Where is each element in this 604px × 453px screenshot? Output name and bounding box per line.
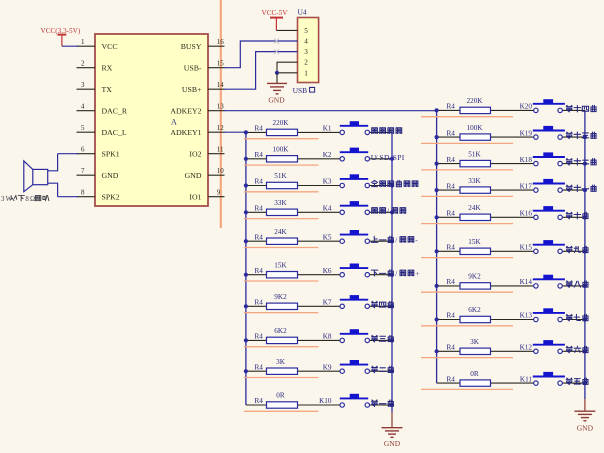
svg-text:R4: R4 xyxy=(447,344,456,352)
pushbutton K19 xyxy=(520,126,565,139)
USB pin 4 xyxy=(304,38,308,46)
pushbutton K7 xyxy=(323,295,370,308)
pushbutton K2 xyxy=(323,148,370,161)
label 3W以下8Ω喇叭 xyxy=(1,195,49,202)
pushbutton K16 xyxy=(520,206,565,219)
resistor R4 15K xyxy=(447,238,491,255)
resistor R4 0R xyxy=(255,392,298,408)
svg-text:6: 6 xyxy=(81,146,85,154)
resistor R4 33K xyxy=(255,199,298,216)
svg-text:R4: R4 xyxy=(255,333,264,341)
svg-text:15: 15 xyxy=(217,60,225,68)
pin 5 (DAC_L) xyxy=(77,124,127,137)
wire row K19 xyxy=(435,135,588,139)
pin 14 (USB+) xyxy=(182,81,225,94)
wire row K8 xyxy=(244,338,394,342)
svg-text:Ω: Ω xyxy=(30,196,35,203)
wire row K13 xyxy=(435,317,588,321)
svg-text:R4: R4 xyxy=(447,312,456,320)
svg-text:R4: R4 xyxy=(255,125,264,133)
svg-text:5: 5 xyxy=(304,27,308,35)
marker line under K7 row xyxy=(244,312,319,314)
svg-text:3: 3 xyxy=(1,196,5,203)
svg-text:15K: 15K xyxy=(274,261,287,269)
svg-text:14: 14 xyxy=(217,81,225,89)
label 第五曲 xyxy=(566,378,588,385)
svg-text:R4: R4 xyxy=(447,103,456,111)
wire row K6 xyxy=(244,273,394,277)
label 第十三曲 xyxy=(566,132,596,139)
resistor R4 51K xyxy=(255,172,298,189)
svg-text:0R: 0R xyxy=(276,392,285,400)
label 第九曲 xyxy=(566,246,588,253)
svg-text:GND: GND xyxy=(185,171,202,180)
marker line under K18 row xyxy=(421,169,513,171)
marker line under K4 row xyxy=(244,218,319,220)
pin 8 (SPK2) xyxy=(77,189,120,202)
label 上一曲/音量- xyxy=(371,235,418,244)
wire flag to USB pin5 xyxy=(276,29,297,31)
pushbutton K9 xyxy=(323,360,370,373)
wire speaker to pin 8 (SPK2) xyxy=(58,196,78,198)
svg-text:R4: R4 xyxy=(255,178,264,186)
label 第七曲 xyxy=(566,314,588,321)
resistor R4 33K xyxy=(447,177,491,193)
bus rail (switch common side) xyxy=(584,110,586,399)
svg-text:USB: USB xyxy=(293,86,308,95)
USB connector U4 xyxy=(298,18,319,83)
svg-text:SPK1: SPK1 xyxy=(102,149,120,158)
resistor R4 220K xyxy=(447,97,491,114)
svg-text:2: 2 xyxy=(81,60,85,68)
label 第六曲 xyxy=(566,346,588,353)
svg-text:K18: K18 xyxy=(520,156,533,164)
marker line under K19 row xyxy=(421,142,513,144)
wire USB pin2 to pin1 junction xyxy=(277,62,298,73)
svg-text:51K: 51K xyxy=(274,172,287,180)
svg-text:K2: K2 xyxy=(323,151,332,159)
wire row K16 xyxy=(435,215,588,219)
IC A (voice module) xyxy=(95,34,208,206)
svg-text:USB+: USB+ xyxy=(182,85,202,94)
resistor R4 24K xyxy=(255,228,298,245)
svg-text:3: 3 xyxy=(304,48,308,56)
wire flag to pin1 xyxy=(62,45,78,47)
svg-text:R4: R4 xyxy=(447,210,456,218)
ground symbol xyxy=(382,428,403,438)
svg-text:K7: K7 xyxy=(323,299,332,307)
svg-text:+: + xyxy=(415,269,419,278)
svg-text:33K: 33K xyxy=(274,199,287,207)
bus rail (resistor side) xyxy=(245,132,247,405)
svg-text:K20: K20 xyxy=(520,103,533,111)
label 第十四曲 xyxy=(566,105,596,112)
svg-text:RX: RX xyxy=(102,63,113,72)
svg-text:K11: K11 xyxy=(520,375,533,383)
svg-text:R4: R4 xyxy=(255,267,264,275)
resistor R4 6K2 xyxy=(447,306,491,322)
svg-text:K1: K1 xyxy=(323,125,332,133)
bus rail (resistor side) xyxy=(436,110,438,383)
label 播放/暂停 xyxy=(372,207,406,216)
USB pin 3 xyxy=(304,48,308,56)
pushbutton K14 xyxy=(520,275,565,288)
marker line under K3 row xyxy=(244,191,319,193)
wire speaker to pin 6 (SPK1) xyxy=(58,153,78,155)
marker line under K2 row xyxy=(244,164,319,166)
svg-text:VCC: VCC xyxy=(102,42,118,51)
svg-text:R4: R4 xyxy=(255,233,264,241)
svg-text:R4: R4 xyxy=(447,375,456,383)
marker line under K11 row xyxy=(421,388,513,390)
power flag VCC-5V xyxy=(262,9,289,30)
svg-text:R4: R4 xyxy=(447,182,456,190)
svg-text:S: S xyxy=(379,153,383,162)
pushbutton K18 xyxy=(520,152,565,165)
resistor R4 3K xyxy=(255,358,298,375)
pin 2 (RX) xyxy=(77,60,113,73)
svg-text:K5: K5 xyxy=(323,233,332,241)
vertical marker line xyxy=(220,0,222,228)
wire row K14 xyxy=(435,284,588,288)
svg-text:GND: GND xyxy=(384,439,401,448)
pushbutton K12 xyxy=(520,340,565,353)
wire USB+ (pin14 to USB pin3) xyxy=(224,52,298,90)
label 第四曲 xyxy=(372,301,394,308)
pushbutton K11 xyxy=(520,372,565,385)
wire row K2 xyxy=(244,157,394,161)
svg-text:TX: TX xyxy=(102,85,113,94)
pin 3 (TX) xyxy=(77,81,113,94)
pin 4 (DAC_R) xyxy=(77,103,128,116)
svg-text:1: 1 xyxy=(304,69,308,77)
pin 1 (VCC) xyxy=(77,38,118,51)
pin 16 (BUSY) xyxy=(181,38,225,51)
svg-text:24K: 24K xyxy=(468,204,481,212)
svg-text:K4: K4 xyxy=(323,205,332,213)
pin 12 (ADKEY1) xyxy=(170,124,224,137)
resistor R4 220K xyxy=(255,119,298,135)
pushbutton K20 xyxy=(520,99,565,112)
wire net ADKEY1 (pin12 to key ladder 1) xyxy=(224,131,246,133)
svg-text:4: 4 xyxy=(304,38,308,46)
svg-text:K19: K19 xyxy=(520,129,533,137)
marker line under K6 row xyxy=(244,280,319,282)
ground symbol (USB) xyxy=(267,83,287,94)
marker line under K14 row xyxy=(421,291,513,293)
svg-text:6K2: 6K2 xyxy=(274,327,287,335)
svg-text:BUSY: BUSY xyxy=(181,42,202,51)
pushbutton K1 xyxy=(323,121,370,134)
pushbutton K17 xyxy=(520,179,565,192)
svg-text:8: 8 xyxy=(25,196,29,203)
svg-text:SPK2: SPK2 xyxy=(102,192,120,201)
wire net ADKEY2 (pin13 to key ladder 2) xyxy=(224,110,437,112)
pin 11 (IO2) xyxy=(189,146,224,159)
svg-text:S: S xyxy=(393,153,397,162)
svg-text:VCC-5V: VCC-5V xyxy=(262,9,289,17)
svg-text:.: . xyxy=(389,153,391,162)
wire USB- (pin15 to USB pin4) xyxy=(224,41,298,68)
svg-text:11: 11 xyxy=(217,146,224,154)
svg-text:51K: 51K xyxy=(468,150,481,158)
svg-text:R4: R4 xyxy=(255,299,264,307)
svg-text:10: 10 xyxy=(217,167,225,175)
svg-text:3: 3 xyxy=(81,81,85,89)
label 第八曲 xyxy=(566,281,588,288)
pin 15 (USB-) xyxy=(184,60,225,73)
marker line under K17 row xyxy=(421,195,513,197)
marker line under K10 row xyxy=(244,410,319,412)
svg-text:7: 7 xyxy=(81,167,85,175)
svg-text:K12: K12 xyxy=(520,344,533,352)
ground stem (USB) xyxy=(276,73,278,83)
label 第三曲 xyxy=(372,335,394,342)
speaker LS (3W 8ohm) xyxy=(24,154,58,197)
marker line under K1 row xyxy=(244,138,319,140)
bus rail (switch common side) xyxy=(391,132,393,412)
wire row K5 xyxy=(244,239,394,243)
svg-text:DAC_R: DAC_R xyxy=(102,106,128,115)
resistor R4 100K xyxy=(255,146,298,163)
label 播放模式 xyxy=(372,128,402,134)
pushbutton K8 xyxy=(323,329,370,342)
svg-text:13: 13 xyxy=(217,103,225,111)
wire row K4 xyxy=(244,210,394,214)
label 第十曲 xyxy=(566,212,588,219)
pushbutton K15 xyxy=(520,240,565,253)
resistor R4 100K xyxy=(447,124,491,140)
svg-text:R4: R4 xyxy=(255,397,264,405)
resistor R4 3K xyxy=(447,338,491,355)
svg-text:GND: GND xyxy=(268,95,285,104)
svg-text:9: 9 xyxy=(217,189,221,197)
junction dot USB pin1 xyxy=(275,71,279,75)
svg-text:K13: K13 xyxy=(520,312,533,320)
wire row K9 xyxy=(244,369,394,373)
label 全部歌曲循环 xyxy=(372,180,418,186)
marker line under K13 row xyxy=(421,325,513,327)
svg-text:R4: R4 xyxy=(255,205,264,213)
svg-text:A: A xyxy=(171,118,177,127)
pin 9 (IO1) xyxy=(189,189,224,202)
svg-text:8: 8 xyxy=(81,189,85,197)
wire row K10 xyxy=(246,403,394,407)
svg-text:5: 5 xyxy=(81,124,85,132)
pin 13 (ADKEY2) xyxy=(170,103,224,116)
svg-text:R4: R4 xyxy=(447,156,456,164)
svg-text:K9: K9 xyxy=(323,363,332,371)
marker line under K9 row xyxy=(244,377,319,379)
svg-text:R4: R4 xyxy=(447,244,456,252)
pushbutton K4 xyxy=(323,201,370,214)
wire row K7 xyxy=(244,304,394,308)
marker line under K5 row xyxy=(244,247,319,249)
svg-text:0R: 0R xyxy=(470,370,479,378)
resistor R4 51K xyxy=(447,150,491,166)
svg-text:6K2: 6K2 xyxy=(468,306,481,314)
wire row K12 xyxy=(435,349,588,353)
label 第二曲 xyxy=(372,366,394,373)
svg-text:DAC_L: DAC_L xyxy=(102,128,127,137)
resistor R4 9K2 xyxy=(255,293,298,310)
wire row K17 xyxy=(435,188,588,192)
svg-text:K10: K10 xyxy=(319,397,332,405)
cross marker on USB- wire xyxy=(274,39,279,44)
marker line under K8 row xyxy=(244,346,319,348)
svg-text:IO1: IO1 xyxy=(189,192,201,201)
svg-text:2: 2 xyxy=(304,59,308,67)
marker line under K20 row xyxy=(421,116,513,118)
svg-text:R4: R4 xyxy=(255,151,264,159)
wire row K3 xyxy=(244,183,394,187)
label 第十二曲 xyxy=(566,159,596,166)
svg-text:3K: 3K xyxy=(276,358,286,366)
svg-text:9K2: 9K2 xyxy=(468,273,481,281)
label 第一曲 xyxy=(372,400,394,407)
svg-text:24K: 24K xyxy=(274,228,287,236)
USB pin 2 xyxy=(304,59,308,67)
pushbutton K6 xyxy=(323,264,370,277)
label 第十一曲 xyxy=(566,185,596,192)
svg-text:R4: R4 xyxy=(447,129,456,137)
pushbutton K5 xyxy=(323,230,370,243)
wire row K15 xyxy=(435,249,588,253)
svg-text:33K: 33K xyxy=(468,177,481,185)
cross marker on USB+ wire xyxy=(274,49,279,54)
svg-text:15K: 15K xyxy=(468,238,481,246)
pushbutton K10 xyxy=(319,394,369,407)
svg-text:K17: K17 xyxy=(520,182,533,190)
svg-text:3K: 3K xyxy=(470,338,480,346)
svg-text:R4: R4 xyxy=(447,278,456,286)
marker line under K12 row xyxy=(421,357,513,359)
svg-text:9K2: 9K2 xyxy=(274,293,287,301)
svg-text:GND: GND xyxy=(577,423,594,432)
svg-text:100K: 100K xyxy=(467,124,484,132)
svg-text:U4: U4 xyxy=(298,8,307,17)
svg-text:220K: 220K xyxy=(467,97,484,105)
resistor R4 9K2 xyxy=(447,273,491,290)
svg-text:16: 16 xyxy=(217,38,225,46)
USB pin 1 xyxy=(304,69,308,77)
svg-text:GND: GND xyxy=(102,171,119,180)
svg-text:K14: K14 xyxy=(520,278,533,286)
svg-text:ADKEY2: ADKEY2 xyxy=(170,106,201,115)
wire USB pin1 xyxy=(277,72,298,74)
pin 7 (GND) xyxy=(77,167,119,180)
resistor R4 6K2 xyxy=(255,327,298,344)
svg-text:P: P xyxy=(397,153,401,162)
svg-text:K6: K6 xyxy=(323,267,332,275)
wire row K20 xyxy=(435,108,585,112)
pushbutton K3 xyxy=(323,174,370,187)
svg-text:R4: R4 xyxy=(255,363,264,371)
svg-text:IO2: IO2 xyxy=(189,149,201,158)
svg-text:4: 4 xyxy=(81,103,85,111)
label 下一曲/音量+ xyxy=(371,269,419,278)
ground symbol xyxy=(574,411,595,421)
svg-text:K16: K16 xyxy=(520,210,533,218)
svg-text:K8: K8 xyxy=(323,333,332,341)
wire row K18 xyxy=(435,162,588,166)
label U/SD.SPI xyxy=(371,153,405,162)
svg-text:K15: K15 xyxy=(520,244,533,252)
marker line under K15 row xyxy=(421,257,513,259)
USB pin 5 xyxy=(304,27,308,35)
svg-text:12: 12 xyxy=(217,124,225,132)
resistor R4 0R xyxy=(447,370,491,387)
ground stem xyxy=(584,399,586,411)
pin 10 (GND) xyxy=(185,167,225,180)
resistor R4 24K xyxy=(447,204,491,221)
svg-text:ADKEY1: ADKEY1 xyxy=(170,128,201,137)
svg-text:100K: 100K xyxy=(273,146,290,154)
wire row K1 xyxy=(244,130,392,134)
pin 6 (SPK1) xyxy=(77,146,120,159)
wire row K11 xyxy=(437,381,587,385)
power flag VCC(3.3-5V) xyxy=(41,27,81,46)
label USB口 xyxy=(293,86,315,95)
svg-text:USB-: USB- xyxy=(184,63,202,72)
svg-text:1: 1 xyxy=(81,38,85,46)
resistor R4 15K xyxy=(255,261,298,278)
pushbutton K13 xyxy=(520,308,565,321)
marker line under K16 row xyxy=(421,223,513,225)
svg-text:K3: K3 xyxy=(323,178,332,186)
svg-text:220K: 220K xyxy=(273,119,290,127)
ground stem xyxy=(391,412,393,428)
